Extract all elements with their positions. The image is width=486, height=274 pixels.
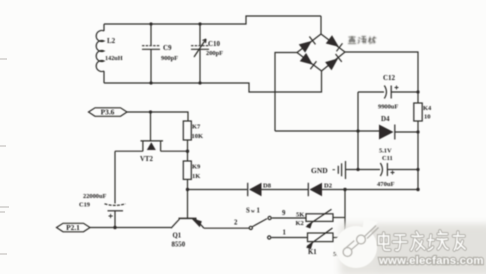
switch Sw1 bbox=[246, 208, 308, 240]
capacitor C11 470uF bbox=[377, 163, 418, 188]
node dot D4 right rail bbox=[416, 130, 419, 133]
mosfet VT2 bbox=[140, 112, 163, 163]
node dot VT2 drain junction bbox=[186, 150, 189, 153]
svg-text:C11: C11 bbox=[382, 155, 393, 162]
svg-text:D8: D8 bbox=[263, 183, 272, 190]
svg-text:10: 10 bbox=[424, 114, 431, 121]
svg-text:9: 9 bbox=[282, 210, 286, 217]
svg-text:2: 2 bbox=[234, 220, 238, 227]
svg-text:22000uF: 22000uF bbox=[83, 193, 107, 200]
node dot C19 bottom junction bbox=[113, 226, 116, 229]
wire top rail of LC tank bbox=[104, 16, 321, 24]
电 bbox=[379, 233, 390, 250]
node dot K-branch junction bbox=[343, 188, 346, 191]
svg-text:900pF: 900pF bbox=[161, 55, 178, 62]
svg-text:P3.6: P3.6 bbox=[101, 108, 115, 117]
wire right rail below K4 bbox=[417, 121, 419, 190]
connector P2.1 bbox=[57, 223, 91, 232]
node dot C9 top bbox=[149, 22, 152, 25]
svg-text:C12: C12 bbox=[383, 74, 396, 82]
connector P3.6 bbox=[89, 108, 128, 117]
wire P3.6 row bbox=[127, 112, 188, 121]
wire P2.1 row bbox=[90, 227, 171, 229]
svg-text:10K: 10K bbox=[192, 133, 204, 140]
bridge diode bottom-right bbox=[325, 54, 342, 70]
svg-text:C9: C9 bbox=[163, 44, 172, 52]
svg-text:K2: K2 bbox=[296, 220, 304, 227]
svg-text:P2.1: P2.1 bbox=[66, 223, 80, 232]
svg-text:9900uF: 9900uF bbox=[378, 104, 398, 111]
capacitor C9 bbox=[142, 24, 178, 83]
scan artifacts left edge bbox=[0, 59, 9, 254]
svg-text:8550: 8550 bbox=[172, 242, 186, 249]
inductor L2 bbox=[96, 24, 123, 83]
svg-text:K4: K4 bbox=[423, 105, 432, 112]
svg-text:142uH: 142uH bbox=[105, 55, 123, 62]
diode D8 bbox=[248, 183, 308, 197]
wire bridge right vertex to right rail bbox=[345, 52, 418, 103]
wire bridge left vertex to D4 row bbox=[275, 53, 297, 132]
烧 bbox=[428, 231, 448, 250]
resistor K4 bbox=[414, 103, 432, 121]
svg-text:200pF: 200pF bbox=[206, 50, 223, 57]
wire vertical C12-left down to GND row bbox=[357, 92, 359, 170]
node dot D8 row left junction bbox=[186, 188, 189, 191]
bridge rectifier diamond bbox=[297, 34, 345, 71]
svg-text:S: S bbox=[246, 208, 250, 215]
variable capacitor C10 bbox=[191, 24, 223, 83]
svg-text:470uF: 470uF bbox=[377, 181, 395, 188]
ground GND symbol bbox=[311, 161, 380, 179]
bridge diode top-right bbox=[326, 35, 343, 51]
友 bbox=[453, 232, 465, 250]
wire K9 to Q1 bbox=[187, 179, 189, 218]
svg-text:L2: L2 bbox=[107, 37, 116, 45]
svg-text:D2: D2 bbox=[324, 183, 332, 190]
transistor Q1 8550 bbox=[171, 218, 249, 249]
node dot C10 top bbox=[198, 22, 201, 25]
wire bridge top feed bbox=[320, 16, 322, 34]
svg-text:GND: GND bbox=[311, 166, 328, 175]
resistor K9 bbox=[183, 161, 201, 180]
node dot C9 bottom bbox=[149, 81, 152, 84]
svg-text:VT2: VT2 bbox=[140, 156, 153, 163]
发 bbox=[411, 232, 425, 250]
wire K branch vertical bbox=[344, 190, 346, 238]
diode D4 bbox=[275, 115, 418, 162]
bridge diode top-left bbox=[299, 36, 316, 52]
watermark text dianzifashaoyou (drawn strokes) bbox=[379, 231, 465, 250]
potentiometer K1 bbox=[306, 228, 345, 258]
wire left branch from VT2 to C19 bbox=[114, 151, 116, 203]
svg-text:www.elecfans.com: www.elecfans.com bbox=[378, 255, 484, 267]
capacitor C19 bbox=[79, 193, 126, 228]
svg-text:5.1V: 5.1V bbox=[379, 148, 392, 155]
resistor K7 bbox=[183, 121, 203, 140]
node dot VT2 gate junction bbox=[149, 110, 152, 113]
node dot C10 bottom bbox=[198, 81, 201, 84]
svg-text:D4: D4 bbox=[381, 115, 390, 123]
bridge diode bottom-left bbox=[300, 53, 317, 69]
node dot C12 right bbox=[416, 90, 419, 93]
svg-text:K9: K9 bbox=[192, 164, 201, 171]
svg-text:1: 1 bbox=[257, 208, 261, 215]
diode D2 bbox=[308, 183, 418, 197]
capacitor C12 bbox=[358, 74, 418, 111]
svg-text:K7: K7 bbox=[192, 124, 201, 131]
svg-text:C19: C19 bbox=[79, 202, 90, 209]
watermark background patch bbox=[340, 224, 486, 274]
watermark logo elecfans bbox=[335, 219, 378, 268]
node dot C11 right rail bbox=[416, 168, 419, 171]
label rectifier bridge (Chinese: drawn strokes) bbox=[348, 36, 376, 44]
svg-text:Q1: Q1 bbox=[173, 233, 182, 240]
node dot D4 row left junction bbox=[356, 129, 359, 132]
wire VT2 left lead bbox=[115, 150, 143, 152]
node dot GND row junction bbox=[356, 168, 359, 171]
svg-text:1K: 1K bbox=[192, 173, 200, 180]
wire VT2 right lead bbox=[161, 150, 188, 152]
wire K7 to K9 bbox=[187, 140, 189, 161]
svg-text:1: 1 bbox=[283, 230, 287, 237]
wire bottom rail of LC tank bbox=[104, 71, 322, 92]
子 bbox=[393, 235, 407, 250]
node dot D2 row right end bbox=[416, 188, 419, 191]
svg-text:C10: C10 bbox=[208, 40, 221, 48]
svg-text:w: w bbox=[251, 209, 255, 215]
svg-text:5K: 5K bbox=[296, 212, 304, 219]
wire D8/D2 row bbox=[188, 189, 247, 191]
svg-text:K1: K1 bbox=[308, 249, 317, 256]
watermark url text bbox=[378, 255, 484, 267]
potentiometer K2 bbox=[296, 209, 346, 228]
